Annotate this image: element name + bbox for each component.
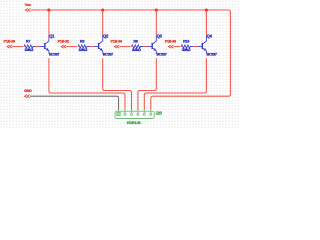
wire port to R16 bbox=[174, 46, 181, 48]
svg-text:R7: R7 bbox=[26, 39, 30, 43]
svg-text:3.9kΩ: 3.9kΩ bbox=[182, 47, 191, 52]
pin 4 stub bbox=[137, 110, 139, 113]
wire Q2 emitter to pin 3 bbox=[103, 58, 132, 110]
Vcc port bbox=[25, 8, 30, 11]
emitter arrow Q1 bbox=[46, 48, 49, 51]
wire Vcc to Q4 collector bbox=[205, 10, 207, 35]
port P1B-32 bbox=[61, 45, 66, 48]
body bbox=[115, 111, 154, 118]
Vcc rail wire bbox=[31, 10, 231, 110]
resistor R16 bbox=[181, 45, 193, 48]
svg-text:BC337: BC337 bbox=[207, 52, 218, 57]
svg-text:3.9kΩ: 3.9kΩ bbox=[79, 47, 88, 52]
GND port bbox=[25, 95, 30, 98]
emitter arrow Q3 bbox=[153, 48, 156, 51]
connector J20 bbox=[115, 110, 154, 119]
junction Q1 collector bbox=[47, 9, 50, 12]
pin 6 circle bbox=[150, 113, 152, 115]
svg-text:BC337: BC337 bbox=[49, 52, 60, 57]
wire Vcc to Q3 collector bbox=[155, 10, 157, 35]
wire Vcc to Q2 collector bbox=[102, 10, 104, 35]
wire R8 to Q2 base bbox=[90, 46, 94, 48]
resistor R9 bbox=[132, 45, 144, 48]
svg-text:3.9kΩ: 3.9kΩ bbox=[25, 47, 34, 52]
svg-text:BC337: BC337 bbox=[156, 52, 167, 57]
wire port to R8 bbox=[66, 46, 77, 48]
wire port to R7 bbox=[12, 46, 23, 48]
port P1B-36 bbox=[168, 45, 173, 48]
pin 3 circle bbox=[130, 113, 132, 115]
wire R16 to Q4 base bbox=[193, 46, 197, 48]
pin 2 stub bbox=[124, 110, 126, 113]
svg-text:R16: R16 bbox=[183, 39, 189, 43]
emitter arrow Q4 bbox=[203, 48, 206, 51]
resistor R7 bbox=[24, 45, 36, 48]
transistor Q2 bbox=[93, 35, 102, 54]
svg-text:Q2: Q2 bbox=[103, 33, 109, 38]
port P1B-34 bbox=[114, 45, 119, 48]
wire Q3 emitter to pin 4 bbox=[138, 58, 156, 110]
pin 3 stub bbox=[131, 110, 133, 113]
svg-text:Q1: Q1 bbox=[49, 33, 55, 38]
transistor Q1 bbox=[40, 35, 49, 54]
transistor Q3 bbox=[147, 35, 156, 54]
junction Q4 collector bbox=[205, 9, 208, 12]
port P1B-30 bbox=[7, 45, 12, 48]
svg-text:Q3: Q3 bbox=[157, 33, 163, 38]
pin 5 stub bbox=[143, 110, 145, 113]
svg-text:P1B-34: P1B-34 bbox=[111, 39, 123, 43]
transistor Q4 bbox=[197, 35, 206, 54]
svg-text:J20: J20 bbox=[155, 110, 162, 115]
junction Q3 collector bbox=[155, 9, 158, 12]
pin 1 stub bbox=[118, 110, 120, 113]
wire Q4 emitter to pin 5 bbox=[144, 58, 206, 110]
svg-text:BC337: BC337 bbox=[103, 52, 114, 57]
svg-text:P1B-32: P1B-32 bbox=[58, 39, 69, 43]
pin 6 stub bbox=[150, 110, 152, 113]
wire Vcc to Q1 collector bbox=[48, 10, 50, 35]
wire port to R9 bbox=[120, 46, 131, 48]
pin 1 marker bbox=[117, 112, 121, 115]
resistor R8 bbox=[78, 45, 90, 48]
GND wire bbox=[30, 96, 119, 110]
svg-text:P1B-30: P1B-30 bbox=[4, 39, 15, 43]
wire R9 to Q3 base bbox=[143, 46, 147, 48]
pin 4 circle bbox=[137, 113, 139, 115]
svg-text:HDR1X6: HDR1X6 bbox=[127, 121, 141, 125]
svg-text:Vcc: Vcc bbox=[25, 3, 31, 7]
pin 2 circle bbox=[124, 113, 126, 115]
svg-text:Q4: Q4 bbox=[207, 33, 213, 38]
svg-text:3.9kΩ: 3.9kΩ bbox=[132, 47, 141, 52]
emitter arrow Q2 bbox=[100, 48, 103, 51]
wire R7 to Q1 base bbox=[36, 46, 40, 48]
junction Q2 collector bbox=[101, 9, 104, 12]
pin 5 circle bbox=[143, 113, 145, 115]
wire Q1 emitter to pin 2 bbox=[49, 58, 125, 110]
svg-text:R8: R8 bbox=[80, 39, 84, 43]
svg-text:GND: GND bbox=[24, 89, 32, 93]
svg-text:P1B-36: P1B-36 bbox=[165, 39, 176, 43]
svg-text:R9: R9 bbox=[133, 39, 137, 43]
